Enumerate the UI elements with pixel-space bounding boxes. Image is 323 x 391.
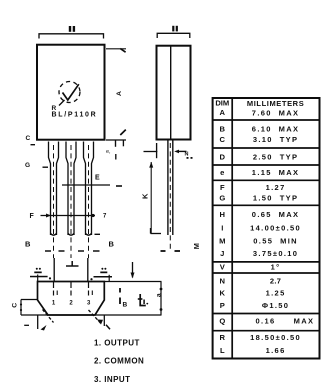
svg-text:1.15 MAX: 1.15 MAX [252,168,300,177]
svg-text:B: B [109,240,115,249]
svg-text:14.00±0.50: 14.00±0.50 [250,224,301,233]
svg-text:B: B [25,240,31,249]
svg-text:A: A [220,108,226,117]
svg-text:A: A [116,91,123,96]
svg-text:Q: Q [219,317,225,326]
svg-text:3. INPUT: 3. INPUT [94,375,131,384]
svg-text:0.55 MIN: 0.55 MIN [253,237,298,246]
svg-text:G: G [25,162,30,169]
svg-text:K: K [141,193,150,199]
svg-text:C: C [12,303,19,308]
svg-text:7.60 MAX: 7.60 MAX [252,109,300,118]
svg-text:N: N [220,277,225,286]
svg-text:G: G [219,194,225,203]
svg-text:0.16: 0.16 [256,317,276,326]
svg-text:E: E [95,175,100,182]
svg-text:C: C [26,135,31,142]
svg-text:2.50 TYP: 2.50 TYP [253,153,299,162]
svg-text:2.7: 2.7 [270,277,281,286]
svg-text:1.27: 1.27 [266,183,286,192]
svg-text:R: R [220,333,226,342]
svg-text:M: M [219,237,225,246]
svg-text:M: M [192,243,201,249]
svg-text:1.66: 1.66 [266,346,286,355]
svg-text:N: N [185,152,189,158]
svg-text:MILLIMETERS: MILLIMETERS [247,99,304,108]
svg-text:P: P [220,301,225,310]
svg-text:1°: 1° [271,263,281,272]
svg-text:B: B [123,302,128,309]
svg-text:H: H [220,210,225,219]
svg-text:e: e [220,168,224,177]
svg-text:F: F [220,183,225,192]
svg-text:D: D [220,153,226,162]
svg-text:MAX: MAX [294,317,315,326]
svg-text:Φ1.50: Φ1.50 [262,301,290,310]
svg-text:6.10 MAX: 6.10 MAX [252,125,300,134]
svg-text:0.65 MAX: 0.65 MAX [252,210,300,219]
svg-text:BL/P110R: BL/P110R [52,112,98,119]
svg-text:3.75±0.10: 3.75±0.10 [253,249,298,258]
svg-text:2. COMMON: 2. COMMON [94,357,144,366]
svg-text:18.50±0.50: 18.50±0.50 [250,333,301,342]
svg-text:L: L [220,346,225,355]
svg-text:1.50 TYP: 1.50 TYP [253,194,299,203]
svg-text:K: K [220,289,226,298]
svg-text:I: I [221,224,223,233]
svg-text:1. OUTPUT: 1. OUTPUT [94,339,140,348]
svg-text:B: B [220,125,226,134]
svg-text:F: F [30,213,35,220]
svg-text:3.10 TYP: 3.10 TYP [253,135,299,144]
svg-text:C: C [220,135,226,144]
svg-text:J: J [220,249,224,258]
svg-text:1.25: 1.25 [266,289,286,298]
svg-text:e,: e, [106,149,111,155]
svg-text:DIM: DIM [215,99,229,108]
